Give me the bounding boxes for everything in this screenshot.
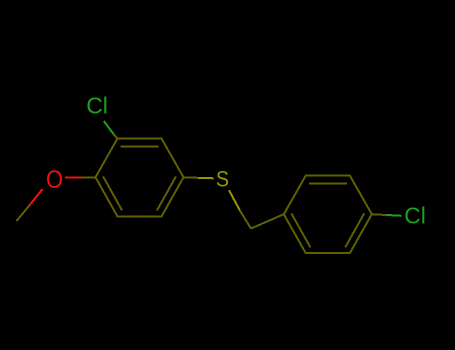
bond C2-S (sulfur half, olive) [198,177,213,180]
bond C4-O (carbon half, dark) [81,176,96,178]
ring 1 double bond inner line (left-bottom edge) [103,177,122,211]
ring 2 double bond inner line (right-bottom edge) [345,213,364,247]
ring 1 double bond inner line (top edge) [121,145,159,147]
bond C4'-Cl (carbon half, dark) [372,213,387,216]
bond C2-S (carbon half, dark) [184,176,199,179]
svg-text:Cl: Cl [404,203,426,229]
bond O-CH3 (carbon half, dark) [17,205,30,221]
ring 2 double bond inner line (left-bottom edge) [291,213,310,247]
bond O-CH3 (oxygen half, red) [30,189,43,205]
bond C4'-Cl (chlorine half, green) [387,214,402,217]
bond C4-O (oxygen half, red) [65,176,81,178]
svg-text:O: O [46,166,63,194]
bond CH2-ring2 (dark) [251,214,284,228]
bond S-CH2 (carbon half, dark) [240,210,251,228]
bond S-CH2 (sulfur half, olive) [229,190,240,210]
benzene ring 1 (left, methoxy-chloro-phenyl) outline [96,139,184,217]
svg-text:S: S [216,167,229,192]
bond C1-Cl (chlorine half, green) [104,121,114,135]
svg-text:Cl: Cl [86,93,108,119]
bond C1-Cl (carbon half, dark) [114,135,118,139]
benzene ring 2 (right, chloro-phenyl) outline [284,176,372,254]
ring 2 double bond inner line (top edge) [309,182,347,184]
ring 1 double bond inner line (right-bottom edge) [157,177,176,211]
